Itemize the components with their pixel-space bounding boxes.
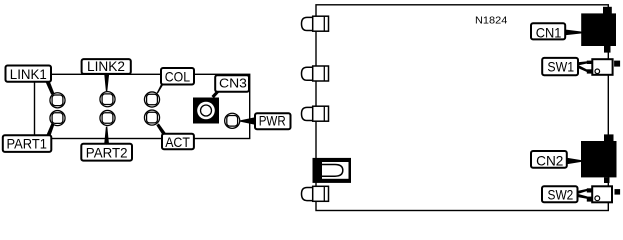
LED PWR [225,113,240,128]
callout ACT [162,134,194,150]
svg-text:SW1: SW1 [547,58,574,74]
LED LINK2 [100,92,115,107]
connector CN2 [581,134,617,183]
connector CN3 (BNC) [193,98,219,124]
svg-text:LINK1: LINK1 [10,66,47,82]
svg-text:CN1: CN1 [536,24,562,40]
svg-text:COL: COL [165,69,190,85]
svg-text:PART1: PART1 [7,136,48,152]
edge LED 4 [302,186,329,201]
pointer LINK2 [104,74,109,92]
pointer COL [156,82,165,94]
LED PART2 [100,110,115,125]
pointer SW2 [577,189,588,199]
LED LINK1 [50,93,65,108]
callout PWR [255,113,291,130]
svg-text:CN3: CN3 [219,76,247,91]
svg-text:SW2: SW2 [548,186,574,202]
pointer LINK1 [45,80,55,95]
edge LED 1 [302,16,329,31]
switch SW1 [587,59,620,75]
callout SW2 [542,186,578,202]
svg-text:PWR: PWR [259,113,286,129]
svg-text:LINK2: LINK2 [87,58,125,74]
svg-text:ACT: ACT [165,134,190,150]
edge LED 3 [302,106,329,121]
svg-text:CN2: CN2 [536,152,563,168]
pointer PART2 [104,127,109,144]
pointer CN3 [212,90,222,98]
PCB board outline [316,5,608,211]
faceplate outline [35,74,250,138]
svg-text:PART2: PART2 [86,144,128,160]
connector CN1 [581,7,616,53]
LED COL [144,92,159,107]
pointer PART1 [46,124,54,136]
pointer CN1 [565,30,582,36]
callout SW1 [542,58,578,75]
callout LINK2 [82,58,131,74]
callout PART1 [3,135,52,152]
callout COL [161,68,194,85]
edge LED 2 [302,66,329,81]
switch SW2 [587,186,620,202]
callout CN1 [531,23,565,40]
pointer PWR [240,117,255,125]
callout LINK1 [6,66,52,82]
pointer ACT [156,123,166,134]
callout CN2 [531,151,567,168]
pointer CN2 [567,158,582,164]
LED ACT [144,110,159,125]
connector J1 (shielded jack, left edge) [313,158,352,183]
callout PART2 [81,144,132,161]
LED PART1 [50,111,65,126]
callout CN3 [215,75,249,92]
pointer SW1 [578,61,588,72]
svg-text:N1824: N1824 [475,15,508,26]
